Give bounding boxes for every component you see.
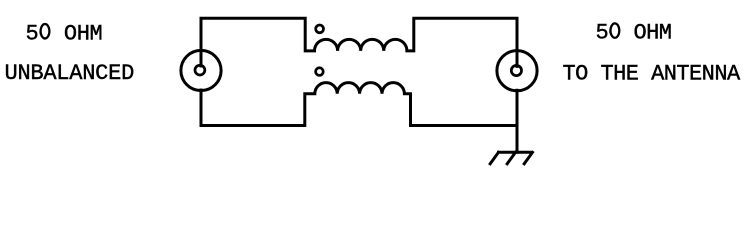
svg-text:50 OHM: 50 OHM [596,21,672,46]
svg-text:UNBALANCED: UNBALANCED [5,61,135,86]
svg-text:50 OHM: 50 OHM [26,21,103,46]
svg-text:TO THE ANTENNA: TO THE ANTENNA [563,61,741,86]
